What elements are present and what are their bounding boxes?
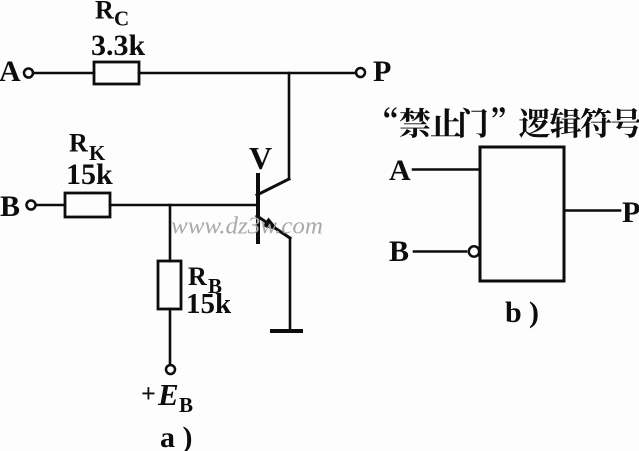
svg-text:P: P	[373, 55, 391, 88]
wire collector drop	[288, 73, 291, 179]
transistor V	[257, 175, 290, 242]
input terminal A	[24, 69, 33, 78]
svg-text:15k: 15k	[186, 288, 232, 320]
label +EB	[141, 377, 193, 417]
svg-text:www.dz3w.com: www.dz3w.com	[171, 214, 323, 240]
label b)	[505, 296, 539, 329]
input terminal B	[27, 201, 36, 210]
svg-text:R: R	[69, 129, 88, 158]
svg-text:R: R	[95, 0, 114, 25]
resistor RK	[65, 193, 110, 217]
gate output wire	[564, 209, 620, 212]
svg-text:E: E	[157, 377, 179, 412]
svg-text:R: R	[188, 262, 207, 291]
svg-text:B: B	[179, 393, 193, 417]
title CJK	[384, 107, 639, 138]
gate input wire B	[414, 250, 466, 253]
ground	[272, 329, 301, 333]
svg-text:3.3k: 3.3k	[91, 29, 146, 62]
wire emitter to ground	[289, 238, 292, 330]
svg-text:15k: 15k	[66, 158, 113, 191]
wire base node to RB	[169, 205, 172, 261]
svg-text:b: b	[505, 296, 522, 329]
inversion bubble	[469, 246, 479, 256]
resistor RC	[94, 62, 139, 84]
terminal EB	[166, 365, 175, 374]
svg-text:B: B	[0, 190, 20, 223]
wire A to RC	[33, 72, 94, 75]
svg-text:a ): a )	[160, 421, 193, 451]
svg-text:+: +	[141, 379, 156, 408]
output terminal P	[356, 68, 365, 77]
wire RK to base	[110, 204, 256, 207]
svg-text:C: C	[114, 7, 129, 31]
label RB	[188, 262, 222, 298]
label RK	[69, 129, 106, 166]
wire RC to P	[139, 72, 356, 75]
svg-text:A: A	[389, 154, 411, 187]
svg-text:A: A	[0, 55, 21, 88]
gate U1 box	[480, 147, 564, 281]
wire B to RK	[36, 204, 65, 207]
resistor RB	[158, 261, 181, 309]
svg-text:V: V	[249, 140, 272, 176]
svg-text:P: P	[622, 196, 639, 229]
label RC	[95, 0, 129, 31]
svg-text:B: B	[389, 235, 409, 268]
svg-text:): )	[529, 296, 539, 329]
wire RB to EB	[169, 309, 172, 365]
gate input wire A	[413, 168, 480, 171]
